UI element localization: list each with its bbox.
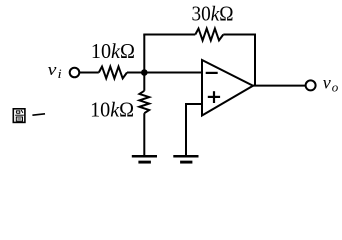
svg-text:30kΩ: 30kΩ <box>192 2 234 26</box>
svg-text:10kΩ: 10kΩ <box>91 39 135 63</box>
svg-text:10kΩ: 10kΩ <box>90 98 134 122</box>
